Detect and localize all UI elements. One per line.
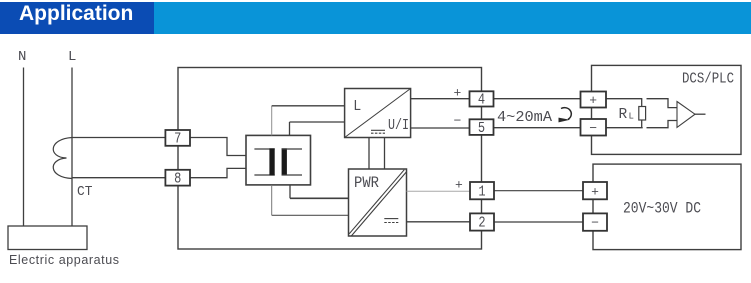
svg-text:8: 8 xyxy=(174,172,181,188)
supply minus terminal xyxy=(583,213,607,230)
wire N vertical xyxy=(23,68,25,227)
U/I converter U1 box xyxy=(345,89,411,138)
wire CT to terminal 7 xyxy=(72,137,166,139)
svg-text:2: 2 xyxy=(478,216,485,232)
supply plus terminal xyxy=(583,182,607,199)
svg-text:L: L xyxy=(68,49,76,65)
wire transformer to U/I lower xyxy=(290,121,345,123)
wire resistor to amplifier bottom xyxy=(647,121,678,128)
svg-text:4: 4 xyxy=(478,93,485,109)
header band light blue xyxy=(154,2,751,34)
svg-text:+: + xyxy=(589,93,597,108)
svg-text:20V~30V DC: 20V~30V DC xyxy=(623,200,701,218)
wire L vertical xyxy=(71,68,73,227)
svg-text:+: + xyxy=(455,178,463,193)
transformer T1 box xyxy=(246,135,311,185)
wire resistor stub bottom xyxy=(641,120,643,128)
svg-text:4~20mA: 4~20mA xyxy=(497,109,552,126)
wire terminal 2 to supply minus xyxy=(494,221,584,223)
svg-text:5: 5 xyxy=(478,121,485,137)
terminal 4 xyxy=(470,91,494,108)
header title Application xyxy=(19,3,133,24)
svg-text:N: N xyxy=(18,49,26,65)
wire U/I to terminal 5 xyxy=(411,127,470,129)
svg-text:−: − xyxy=(589,121,597,136)
transformer T1 core xyxy=(254,148,302,175)
wire transformer to U/I upper xyxy=(272,105,345,107)
svg-text:PWR: PWR xyxy=(354,174,379,192)
DCS/PLC box xyxy=(592,65,742,154)
wire terminal 8 to transformer xyxy=(190,168,246,177)
svg-text:L: L xyxy=(353,98,361,115)
wire transformer to PWR upper xyxy=(290,197,349,199)
terminal 7 xyxy=(165,130,190,148)
svg-text:1: 1 xyxy=(478,184,485,200)
power supply PWR double diagonal xyxy=(349,170,404,234)
U/I converter U1 diagonal xyxy=(345,89,411,138)
header band dark blue xyxy=(0,2,154,34)
DCS plus terminal xyxy=(581,92,607,109)
wire resistor to amplifier top xyxy=(647,99,678,108)
svg-text:−: − xyxy=(591,216,599,231)
wire terminal 5 to DCS minus xyxy=(494,127,582,129)
Electric apparatus box xyxy=(8,226,87,250)
wire terminal 1 to supply plus xyxy=(494,190,584,192)
terminal 5 xyxy=(470,119,494,137)
power supply PWR DC symbol xyxy=(384,219,398,223)
svg-text:+: + xyxy=(454,86,462,101)
amplifier A1 triangle xyxy=(677,102,695,128)
terminal 1 xyxy=(470,182,494,200)
wire DCS minus to load resistor xyxy=(606,127,643,129)
power supply PWR box xyxy=(349,169,407,236)
wire transformer lead top-left xyxy=(271,106,273,136)
wire amplifier output xyxy=(695,113,706,115)
terminal 8 xyxy=(165,170,190,188)
wire U/I to PWR left xyxy=(368,138,370,170)
svg-text:DCS/PLC: DCS/PLC xyxy=(682,71,734,88)
DCS minus terminal xyxy=(581,119,607,136)
wire transformer lead top-right xyxy=(289,122,291,135)
wire transformer to PWR lower xyxy=(272,214,349,216)
wire resistor stub top xyxy=(641,99,643,107)
wire terminal 7 to transformer xyxy=(190,138,246,156)
wire U/I to terminal 4 xyxy=(411,98,470,100)
transformer CT primary coil xyxy=(53,138,72,179)
svg-text:−: − xyxy=(454,114,462,129)
svg-text:+: + xyxy=(591,184,599,199)
wire PWR to terminal 2 xyxy=(407,221,471,223)
current direction arrow xyxy=(561,108,571,120)
power supply 20V-30V DC box xyxy=(593,164,741,250)
wire PWR to terminal 1 xyxy=(407,190,471,192)
svg-text:7: 7 xyxy=(174,132,181,148)
wire U/I to PWR right xyxy=(384,138,386,170)
svg-text:U/I: U/I xyxy=(388,117,409,134)
svg-text:CT: CT xyxy=(77,184,92,200)
wire DCS plus to load resistor xyxy=(606,98,642,100)
wire transformer lead bottom-left xyxy=(271,185,273,215)
wire CT to terminal 8 xyxy=(72,177,166,179)
wire transformer lead bottom-right xyxy=(289,185,291,198)
svg-text:Electric apparatus: Electric apparatus xyxy=(9,253,119,267)
svg-text:L: L xyxy=(629,112,634,122)
load resistor RL xyxy=(639,107,646,121)
terminal 2 xyxy=(470,213,494,231)
transmitter outer box xyxy=(178,68,482,250)
svg-text:R: R xyxy=(619,107,628,123)
U/I converter DC symbol xyxy=(371,130,385,133)
wire terminal 4 to DCS plus xyxy=(494,98,582,100)
